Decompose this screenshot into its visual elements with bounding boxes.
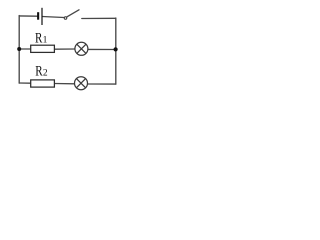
svg-text:R: R [35, 64, 42, 80]
svg-text:1: 1 [43, 36, 48, 46]
svg-text:2: 2 [43, 69, 48, 79]
svg-text:R: R [35, 31, 42, 47]
